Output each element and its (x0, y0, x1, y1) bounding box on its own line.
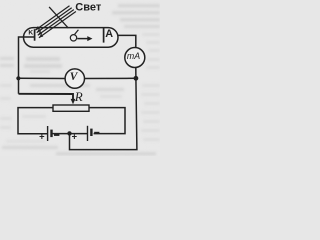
svg-text:+: + (39, 131, 45, 142)
svg-text:Свет: Свет (75, 2, 102, 14)
wire K-side: tube to left vertical (19, 37, 35, 94)
light rays (36, 6, 76, 38)
battery cell 1 positive plate (47, 126, 48, 141)
voltmeter row wire left (19, 77, 66, 79)
ray arrowheads (36, 26, 40, 30)
wire right vertical down to bottom corner then battery tap (70, 78, 137, 149)
cathode K plate (34, 29, 36, 41)
svg-text:K: K (28, 29, 33, 36)
voltmeter V circle (65, 69, 84, 88)
wire rheostat right end to battery right (89, 108, 125, 134)
wiper wire from left vertical (19, 94, 74, 100)
battery cell 1 negative plate (50, 130, 52, 138)
wire rheostat left end to battery left (18, 108, 53, 134)
milliammeter mA circle (125, 48, 145, 68)
anode A plate (103, 28, 105, 43)
svg-text:+: + (72, 131, 78, 142)
junction dot left (K wire / voltmeter) (16, 76, 20, 80)
svg-text:R: R (74, 89, 83, 104)
wire anode to milliammeter (118, 35, 136, 47)
wavefront tick across rays (49, 7, 68, 28)
voltmeter row wire right (85, 77, 136, 79)
battery cell 1 minus dash (54, 134, 59, 136)
battery cell 2 negative plate (90, 129, 92, 136)
ghost print-through marks (0, 4, 160, 156)
battery center tap dot (67, 131, 71, 135)
junction dot right (mA wire / voltmeter) (134, 76, 139, 81)
rheostat R body (53, 105, 89, 111)
wiper arrowhead (71, 99, 76, 104)
paper background (0, 0, 160, 156)
wire milliammeter down to junction (135, 68, 137, 79)
battery wire between cells (52, 133, 88, 135)
phototube envelope (24, 28, 119, 48)
svg-text:mA: mA (127, 51, 140, 61)
battery cell 2 positive plate (87, 126, 88, 141)
electron arrow (77, 38, 89, 40)
battery cell 2 minus dash (94, 132, 99, 134)
electron symbol circle with tail (70, 35, 76, 41)
svg-text:A: A (105, 28, 113, 40)
